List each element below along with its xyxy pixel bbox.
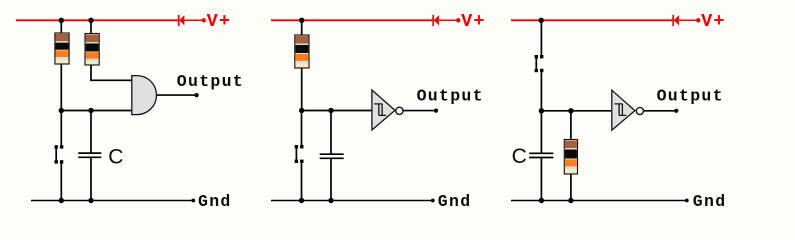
node junction B (switch branch) (299, 108, 304, 113)
svg-text:C: C (512, 145, 527, 168)
node junction rail-switch circuit 3 (539, 18, 544, 23)
hysteresis symbol U2 (374, 104, 386, 116)
resistor R3 (brown-black-orange) (295, 35, 309, 68)
gnd junction dot (switch branch) (59, 198, 64, 203)
wire node B to inverter input (302, 110, 372, 112)
svg-text:Gnd: Gnd (198, 192, 232, 211)
svg-text:Gnd: Gnd (693, 192, 727, 211)
wire node C to resistor R4 (570, 111, 572, 140)
inverter U3 (Schmitt trigger) (612, 90, 635, 130)
wire rail to switch S3 (540, 20, 542, 55)
wire node A to gate lower input (61, 110, 132, 112)
gnd terminal dot circuit 3 (685, 199, 689, 203)
wire inverter output circuit 3 (644, 110, 677, 112)
wire capacitor C3 to Gnd (540, 158, 542, 200)
svg-text:Output: Output (177, 72, 244, 91)
wire rail to R3 (301, 20, 303, 35)
wire switch S2 to Gnd (301, 163, 303, 201)
wire Gnd rail circuit 2 (271, 200, 432, 202)
gnd junction dot (capacitor branch c3) (539, 198, 544, 203)
resistor R1 (brown-black-orange) (55, 33, 69, 64)
inverter U3 bubble (636, 107, 643, 114)
svg-text:Output: Output (657, 86, 724, 105)
gnd junction dot (capacitor branch c2) (328, 198, 333, 203)
node junction A (R1/switch) (59, 108, 64, 113)
gnd junction dot (switch branch c2) (299, 198, 304, 203)
wire node C to inverter input (541, 110, 611, 112)
inverter U2 (Schmitt trigger) (372, 90, 395, 130)
wire R3 to node B (301, 68, 303, 111)
output terminal dot circuit 1 (195, 93, 199, 97)
gnd terminal dot circuit 2 (431, 199, 435, 203)
node junction A (capacitor tap) (88, 108, 93, 113)
wire capacitor C1 to Gnd (90, 158, 92, 201)
wire node A to capacitor C1 (90, 111, 92, 153)
node junction B (capacitor tap) (328, 108, 333, 113)
wire R1 to node A (60, 64, 62, 111)
wire node B to capacitor C2 (330, 111, 332, 154)
wire node C to capacitor C3 (540, 111, 542, 153)
capacitor C1 plates (78, 153, 101, 157)
switch S1 (push contacts) (55, 145, 64, 163)
wire Gnd rail circuit 1 (31, 200, 192, 202)
hysteresis symbol U3 (615, 104, 627, 116)
power connector arrow V+ circuit 1 (179, 15, 206, 26)
node junction rail-R2 (88, 18, 93, 23)
node junction C (capacitor branch) (539, 108, 544, 113)
gnd junction dot (capacitor branch) (88, 198, 93, 203)
wire rail to R1 (60, 20, 62, 33)
wire V+ rail circuit 1 (16, 19, 178, 21)
svg-text:V+: V+ (207, 11, 232, 32)
power connector arrow V+ circuit 3 (673, 15, 700, 26)
capacitor C3 plates (529, 153, 553, 157)
switch S3 (push contacts) (535, 55, 544, 72)
node junction rail-R1 (59, 18, 64, 23)
output terminal dot circuit 2 (434, 109, 438, 113)
capacitor C2 plates (320, 154, 344, 158)
svg-text:C: C (108, 146, 123, 169)
wire resistor R4 to Gnd (570, 174, 572, 201)
svg-text:V+: V+ (461, 11, 486, 32)
wire Gnd rail circuit 3 (511, 200, 686, 202)
output terminal dot circuit 3 (674, 109, 678, 113)
wire V+ rail circuit 3 (511, 19, 673, 21)
inverter U2 bubble (396, 107, 403, 114)
wire node A to switch (60, 111, 62, 146)
switch S2 (push contacts) (295, 145, 304, 163)
wire node B to switch (301, 111, 303, 146)
power connector arrow V+ circuit 2 (433, 15, 460, 26)
wire rail to R2 (90, 20, 92, 34)
node junction rail-R3 (299, 18, 304, 23)
svg-text:Gnd: Gnd (438, 192, 472, 211)
wire switch S3 to node C (540, 72, 542, 111)
node junction C (resistor tap) (568, 108, 573, 113)
AND gate U1 (132, 76, 157, 115)
gnd terminal dot circuit 1 (191, 199, 195, 203)
wire gate output (157, 94, 197, 96)
resistor R2 (brown-black-orange) (85, 34, 99, 66)
svg-text:Output: Output (417, 87, 484, 106)
wire R2 to gate upper input (91, 65, 132, 80)
gnd junction dot (resistor branch c3) (568, 198, 573, 203)
wire capacitor C2 to Gnd (330, 159, 332, 201)
wire inverter output circuit 2 (403, 110, 436, 112)
svg-text:V+: V+ (701, 11, 726, 32)
wire switch to Gnd (60, 163, 62, 200)
resistor R4 (brown-black-orange) (564, 140, 577, 175)
wire V+ rail circuit 2 (271, 19, 433, 21)
